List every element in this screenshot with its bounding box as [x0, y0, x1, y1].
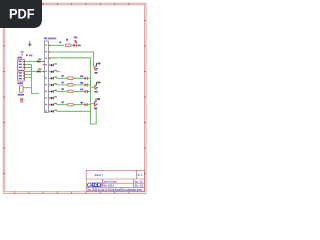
- frame ticks top: [15, 3, 129, 5]
- wire chain3: [57, 91, 85, 93]
- net flag +V row1: [74, 37, 77, 39]
- label under box3: [18, 94, 24, 96]
- diode p10: [51, 103, 57, 106]
- wire bottom row: [57, 110, 91, 112]
- chain1 value: [80, 75, 83, 77]
- wire core layer: [23, 45, 96, 124]
- title block texts: [87, 173, 144, 192]
- wire branch to Q3: [91, 103, 94, 105]
- diode p4: [51, 63, 57, 66]
- frame ticks left: [3, 21, 5, 174]
- input diodes column: [51, 63, 57, 112]
- diode p7: [51, 83, 57, 86]
- transistor Q2: [93, 82, 100, 93]
- IC pin numbers: [45, 44, 47, 111]
- wire branch to Q2: [91, 86, 94, 88]
- IC U1 top label: [44, 37, 47, 39]
- PDF badge: [0, 0, 42, 28]
- component box3: [20, 86, 24, 92]
- svg-text:Sh: 1/1: Sh: 1/1: [135, 184, 144, 187]
- title block outline: [86, 170, 144, 191]
- chain4 value: [80, 102, 83, 104]
- J1 pin texts: [19, 61, 22, 69]
- diode p6: [51, 76, 57, 79]
- border frame outer: [3, 3, 146, 193]
- wire left cluster to IC row2: [25, 71, 45, 73]
- diode p9: [51, 96, 57, 99]
- wire chain2: [57, 84, 85, 86]
- label under J2: [18, 82, 24, 84]
- J1 pin nubs: [23, 61, 25, 68]
- wire box3 loop: [23, 87, 32, 89]
- wire box1 pin2: [25, 64, 32, 66]
- wire row1 segment a: [49, 44, 64, 46]
- chain1 refdes: [62, 75, 64, 77]
- row1 black refdes: [59, 42, 61, 44]
- svg-text:Ver: 2023.B Cad S: KiCad E: Ver: 2023.B Cad S: KiCad EasyEDA schemat…: [87, 189, 142, 192]
- ground top-left: [28, 41, 31, 46]
- wire chain1: [57, 77, 85, 79]
- wire stub pin4: [49, 64, 51, 66]
- J2 pin texts: [19, 72, 22, 79]
- chain2 refdes: [62, 82, 64, 84]
- power bar symbol: [20, 52, 23, 56]
- row1: resistor: [65, 44, 71, 47]
- svg-text:Ver: 1.0: Ver: 1.0: [135, 180, 144, 183]
- chain3 LED: [85, 90, 88, 93]
- wire box2 pin3: [25, 76, 32, 78]
- connector J1 box: [18, 59, 25, 70]
- wire vertical bus left cluster: [32, 65, 40, 94]
- small red mark bottom cluster: [20, 98, 23, 102]
- wire left cluster to IC row1: [25, 61, 45, 63]
- wire box2 pin2: [25, 74, 32, 76]
- border frame inner: [5, 5, 145, 192]
- chain3 value: [80, 89, 83, 91]
- chain rows (R + value + LED): [62, 75, 88, 106]
- wire box1 pin3: [25, 67, 32, 69]
- svg-text:R: 1: R: 1: [138, 173, 143, 177]
- svg-text:Ref: 2023.B: Ref: 2023.B: [103, 185, 114, 188]
- wire row1 segment b: [72, 44, 73, 46]
- chain2 LED: [85, 83, 88, 86]
- wire stub pin9: [49, 97, 51, 99]
- label above J1: [18, 57, 23, 59]
- chain2 resistor: [67, 84, 73, 87]
- diode D-in row2 on cross wire: [37, 68, 41, 72]
- chain1 resistor: [67, 77, 73, 80]
- J2 pin nubs: [23, 73, 25, 80]
- net flag VCC left: [26, 54, 29, 56]
- transistor Q3: [93, 98, 100, 109]
- svg-text:PDF: PDF: [9, 5, 35, 21]
- chain1 LED: [85, 77, 88, 80]
- connector J2 box: [18, 71, 25, 81]
- diode p11: [51, 109, 57, 112]
- transistor Q1: [93, 63, 100, 74]
- chain4 resistor: [67, 103, 73, 106]
- IC pin stubs left: [43, 62, 45, 72]
- diode p5: [51, 70, 57, 73]
- frame ticks bottom: [15, 191, 129, 193]
- chain3 resistor: [67, 90, 73, 93]
- wire halo layer: [23, 45, 96, 124]
- wire B long with corner down to bottom loop: [49, 58, 97, 124]
- svg-text:Drawn: Tor Orbidan: Drawn: Tor Orbidan: [103, 180, 117, 183]
- row1: label R: [66, 39, 68, 41]
- diode D-in row1 on cross wire: [37, 58, 41, 62]
- net label VCC left text: [29, 55, 33, 57]
- wire stub row 71.7: [57, 71, 61, 73]
- svg-text:Doc( ): Doc( ): [95, 173, 104, 177]
- IC pin stubs right: [49, 45, 51, 111]
- chain3 refdes: [62, 88, 64, 90]
- wire A long with corner down to Q1: [49, 52, 94, 67]
- row1: LED: [73, 42, 81, 47]
- chain2 value: [80, 82, 83, 84]
- chain4 refdes: [62, 101, 64, 103]
- wire chain4: [57, 104, 85, 106]
- frame ticks right: [144, 21, 146, 174]
- diode p8: [51, 90, 57, 93]
- chain4 LED: [85, 103, 88, 106]
- op IC U1 body: [45, 41, 49, 113]
